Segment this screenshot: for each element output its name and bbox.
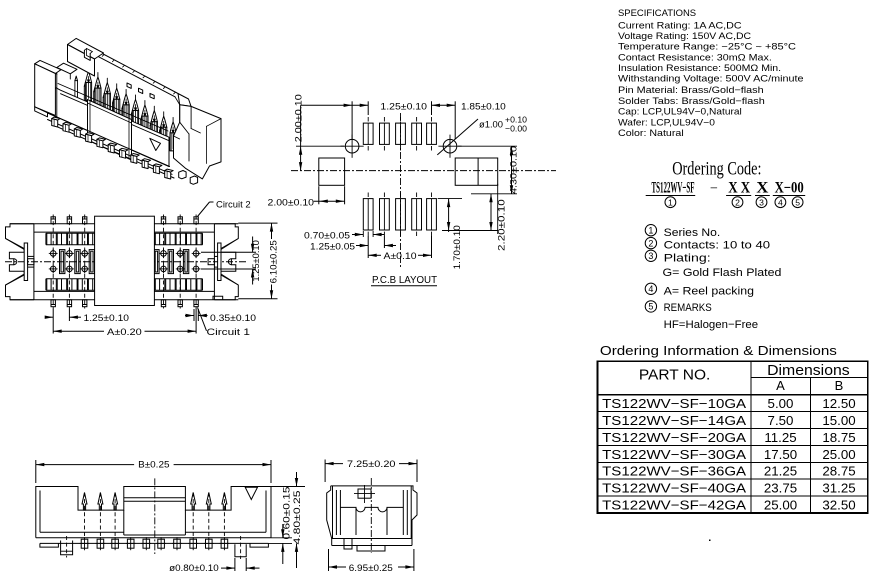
svg-text:25.00: 25.00 xyxy=(764,498,797,513)
bottom comb bands xyxy=(46,278,95,280)
pcb centerline xyxy=(291,170,556,172)
svg-text:1: 1 xyxy=(668,197,673,207)
svg-text:28.75: 28.75 xyxy=(822,464,855,479)
label Circuit 2 xyxy=(198,202,210,217)
svg-text:2: 2 xyxy=(648,238,653,248)
svg-text:1: 1 xyxy=(648,225,653,235)
svg-text:3: 3 xyxy=(759,197,764,207)
svg-text:21.25: 21.25 xyxy=(764,464,797,479)
svg-text:G= Gold Flash Plated: G= Gold Flash Plated xyxy=(663,267,782,279)
svg-text:4.30±0.10: 4.30±0.10 xyxy=(509,146,520,194)
svg-text:1.25±0.05: 1.25±0.05 xyxy=(310,241,355,252)
svg-text:6.95±0.25: 6.95±0.25 xyxy=(349,563,393,574)
leader ø1.00 xyxy=(437,119,478,155)
svg-text:TS122WV−SF−36GA: TS122WV−SF−36GA xyxy=(602,464,746,479)
ordering code heading xyxy=(646,160,806,208)
svg-text:2.00±0.10: 2.00±0.10 xyxy=(293,94,304,142)
svg-text:2.00±0.10: 2.00±0.10 xyxy=(268,197,315,208)
center block xyxy=(95,216,155,305)
svg-text:Voltage Rating: 150V AC,DC: Voltage Rating: 150V AC,DC xyxy=(618,31,751,41)
svg-text:Circuit 2: Circuit 2 xyxy=(216,199,251,210)
dim A±0.10 xyxy=(367,248,369,258)
iso V notch mark xyxy=(150,138,161,150)
top view centerline xyxy=(5,261,246,263)
iso back tower notch xyxy=(84,50,90,60)
svg-text:5: 5 xyxy=(648,302,653,312)
svg-text:32.50: 32.50 xyxy=(822,498,855,513)
side outline xyxy=(327,486,417,539)
top pad row xyxy=(363,123,373,144)
svg-text:Ordering Code:: Ordering Code: xyxy=(672,160,761,180)
svg-text:6.10±0.25: 6.10±0.25 xyxy=(268,240,279,283)
svg-text:REMARKS: REMARKS xyxy=(664,302,712,314)
iso right cap xyxy=(174,105,222,179)
iso cavity floor edge xyxy=(58,84,168,132)
dim 7.25±0.20 xyxy=(324,460,326,483)
iso left front tower xyxy=(35,60,61,73)
specifications text block xyxy=(618,8,804,138)
svg-text:0.35±0.10: 0.35±0.10 xyxy=(210,313,256,324)
side view drawing xyxy=(325,459,417,574)
iso far side tab tips xyxy=(127,83,131,88)
dim 1.25±0.05 xyxy=(367,236,369,248)
svg-text:5.00: 5.00 xyxy=(768,396,794,411)
isometric 3d view xyxy=(35,38,711,541)
svg-text:18.75: 18.75 xyxy=(822,430,855,445)
pcb layout drawing xyxy=(268,94,557,286)
svg-text:1.25±0.10: 1.25±0.10 xyxy=(251,240,262,281)
stray dot xyxy=(709,540,711,542)
svg-text:7.25±0.20: 7.25±0.20 xyxy=(347,459,396,470)
svg-text:Cap: LCP,UL94V−0,Natural: Cap: LCP,UL94V−0,Natural xyxy=(618,107,742,117)
dim 6.10±0.25 xyxy=(238,222,277,224)
svg-text:Current Rating: 1A AC,DC: Current Rating: 1A AC,DC xyxy=(618,21,742,31)
svg-text:TS122WV−SF: TS122WV−SF xyxy=(652,179,695,196)
svg-text:Series No.: Series No. xyxy=(664,227,721,239)
top comb bands xyxy=(46,232,95,234)
svg-text:Wafer: LCP,UL94V−0: Wafer: LCP,UL94V−0 xyxy=(618,117,715,127)
svg-text:−: − xyxy=(710,181,718,196)
svg-text:X−00: X−00 xyxy=(775,179,804,196)
dim 2.20±0.10 xyxy=(497,184,499,234)
svg-text:−0.00: −0.00 xyxy=(505,124,527,134)
svg-text:1.25±0.10: 1.25±0.10 xyxy=(84,313,130,324)
iso left tower corner tick xyxy=(35,64,38,65)
dim 1.85±0.10 top xyxy=(432,104,456,106)
iso fat bullet pins (near row) xyxy=(88,67,90,72)
svg-text:Circuit 1: Circuit 1 xyxy=(207,327,251,338)
iso far wall band xyxy=(97,51,179,94)
side scalloped line xyxy=(340,507,403,512)
front right leg xyxy=(235,544,246,557)
front feet xyxy=(40,543,59,547)
svg-text:A= Reel packing: A= Reel packing xyxy=(664,285,754,297)
svg-text:11.25: 11.25 xyxy=(764,430,796,445)
svg-text:TS122WV−SF−42GA: TS122WV−SF−42GA xyxy=(602,498,746,513)
dim 0.60±0.15 xyxy=(271,537,292,539)
iso near wall xyxy=(48,88,170,167)
front V notch xyxy=(245,487,257,499)
svg-text:B±0.25: B±0.25 xyxy=(138,459,169,470)
svg-text:3: 3 xyxy=(648,251,653,261)
iso center block face xyxy=(88,100,132,161)
svg-text:Temperature Range: −25°C ~: Temperature Range: −25°C ~ +85°C xyxy=(618,42,796,52)
svg-text:HF=Halogen−Free: HF=Halogen−Free xyxy=(664,319,759,331)
svg-text:A±0.20: A±0.20 xyxy=(107,327,142,338)
svg-text:A: A xyxy=(776,378,785,393)
iso base band xyxy=(48,113,170,167)
svg-text:Withstanding Voltage: 500V: Withstanding Voltage: 500V AC/minute xyxy=(618,74,804,84)
svg-text:P.C.B LAYOUT: P.C.B LAYOUT xyxy=(372,274,438,286)
side centerline xyxy=(370,478,372,553)
dim A±0.20 xyxy=(52,321,54,334)
svg-text:2: 2 xyxy=(735,197,740,207)
svg-text:Ordering Information & Dime: Ordering Information & Dimensions xyxy=(600,343,837,358)
front bottom lines xyxy=(36,537,271,539)
dim 6.95±0.25 xyxy=(328,549,330,571)
front solder tabs xyxy=(81,539,88,548)
front center block lines xyxy=(124,497,186,499)
right pads xyxy=(455,158,498,185)
svg-text:TS122WV−SF−14GA: TS122WV−SF−14GA xyxy=(602,413,746,428)
iso saddle bridge xyxy=(57,63,77,74)
contact circles xyxy=(50,251,56,257)
bottom pad row xyxy=(363,199,373,230)
dim 4.30±0.10 xyxy=(458,145,517,147)
right wing xyxy=(214,224,238,300)
svg-text:Pin Material: Brass/Gold−fla: Pin Material: Brass/Gold−flash xyxy=(618,85,764,95)
dim 0.35±0.10 xyxy=(193,309,195,321)
svg-text:12.50: 12.50 xyxy=(822,396,855,411)
svg-text:1.25±0.10: 1.25±0.10 xyxy=(380,101,427,112)
svg-text:SPECIFICATIONS: SPECIFICATIONS xyxy=(618,8,696,18)
dim 0.70±0.05 xyxy=(362,231,364,237)
top view body outline xyxy=(10,223,238,225)
dim 1.25±0.10 bottom xyxy=(52,309,54,322)
svg-text:0.60±0.15: 0.60±0.15 xyxy=(282,487,293,540)
svg-text:5: 5 xyxy=(795,197,800,207)
svg-text:7.50: 7.50 xyxy=(768,413,794,428)
side top square xyxy=(358,489,371,498)
svg-text:Contacts: 10 to 40: Contacts: 10 to 40 xyxy=(664,240,771,252)
dim 4.80±0.25 xyxy=(271,486,305,488)
svg-text:2.20±0.10: 2.20±0.10 xyxy=(496,199,507,251)
svg-text:4.80±0.25: 4.80±0.25 xyxy=(292,491,303,545)
small step bottom right xyxy=(213,296,223,300)
side bottom xyxy=(331,539,333,546)
label Circuit 1 xyxy=(198,308,207,331)
front left leg xyxy=(61,541,73,555)
svg-text:TS122WV−SF−10GA: TS122WV−SF−10GA xyxy=(602,396,746,411)
front outline xyxy=(36,487,271,538)
iso left back tower xyxy=(68,38,104,59)
svg-text:Dimensions: Dimensions xyxy=(767,363,850,379)
svg-text:Insulation Resistance: 500MΩ: Insulation Resistance: 500MΩ Min. xyxy=(618,63,781,73)
svg-text:PART NO.: PART NO. xyxy=(639,367,711,384)
svg-text:B: B xyxy=(835,378,844,393)
dim 2.00±0.10 square pad xyxy=(318,186,320,204)
iso solder tabs xyxy=(52,119,58,128)
left square pad xyxy=(319,158,345,185)
svg-text:X: X xyxy=(756,179,769,196)
pin centrelines and pins xyxy=(52,215,54,309)
svg-text:X X: X X xyxy=(728,179,751,196)
svg-text:Plating:: Plating: xyxy=(664,253,711,265)
svg-text:17.50: 17.50 xyxy=(764,447,797,462)
svg-text:TS122WV−SF−20GA: TS122WV−SF−20GA xyxy=(602,430,746,445)
iso left base steps xyxy=(35,107,48,117)
side inner lines xyxy=(332,486,334,539)
svg-text:1.85±0.10: 1.85±0.10 xyxy=(461,101,506,112)
svg-text:TS122WV−SF−40GA: TS122WV−SF−40GA xyxy=(602,481,746,496)
iso thin posts (far pin row) xyxy=(74,81,76,103)
svg-text:4: 4 xyxy=(778,197,783,207)
svg-text:A±0.10: A±0.10 xyxy=(384,251,417,262)
front view drawing xyxy=(36,459,305,574)
left wing xyxy=(6,224,34,300)
ordering legend list xyxy=(645,225,781,332)
dim 2.00±0.10 left vertical xyxy=(296,145,344,147)
dim 1.70±0.10 xyxy=(438,198,462,200)
top view drawing xyxy=(5,199,279,337)
svg-text:1.70±0.10: 1.70±0.10 xyxy=(452,225,463,269)
front centerline xyxy=(154,478,156,554)
svg-text:25.00: 25.00 xyxy=(822,447,855,462)
svg-text:4: 4 xyxy=(648,284,653,294)
dim B±0.25 xyxy=(35,460,37,483)
svg-text:ø1.00: ø1.00 xyxy=(479,120,503,131)
hole circles xyxy=(345,139,359,153)
dim 1.25±0.10 top xyxy=(351,101,353,139)
dim ø0.80±0.10 xyxy=(234,558,236,571)
dim 1.25±0.10 row pitch xyxy=(201,251,256,253)
svg-text:31.25: 31.25 xyxy=(822,481,855,496)
svg-text:0.70±0.05: 0.70±0.05 xyxy=(304,230,350,241)
svg-text:Color: Natural: Color: Natural xyxy=(618,128,684,138)
svg-text:TS122WV−SF−30GA: TS122WV−SF−30GA xyxy=(602,447,746,462)
svg-text:Solder Tabs: Brass/Gold−flas: Solder Tabs: Brass/Gold−flash xyxy=(618,96,765,106)
svg-text:23.75: 23.75 xyxy=(764,481,797,496)
svg-text:Contact Resistance: 30mΩ Ma: Contact Resistance: 30mΩ Max. xyxy=(618,52,772,62)
iso right cap tabs xyxy=(179,171,186,179)
ordering information table xyxy=(598,343,868,513)
svg-text:15.00: 15.00 xyxy=(822,413,855,428)
svg-text:ø0.80±0.10: ø0.80±0.10 xyxy=(169,563,219,574)
front pins xyxy=(84,493,86,537)
contact slots xyxy=(60,250,65,274)
